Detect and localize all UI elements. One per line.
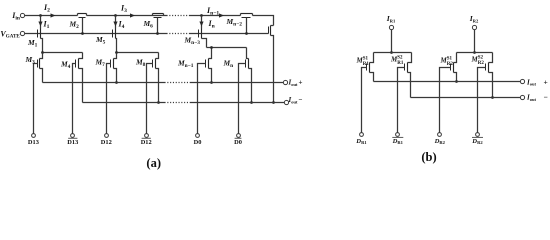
node stage2 top: [114, 14, 117, 17]
svg-text:M4: M4: [60, 60, 71, 70]
wire IR1 lead: [390, 30, 393, 54]
terminal DbarR2: [471, 133, 483, 146]
wire stage2 tee: [115, 51, 158, 54]
svg-text:Mn: Mn: [223, 59, 234, 69]
node stage3 top: [200, 14, 203, 17]
svg-text:Iout−: Iout−: [526, 93, 548, 102]
svg-text:M2: M2: [69, 20, 80, 30]
wire R2 split bar: [457, 52, 493, 54]
terminal DbarR1: [392, 133, 404, 146]
current arrow In: [199, 16, 215, 30]
svg-text:D12: D12: [101, 139, 112, 146]
svg-text:IR2: IR2: [469, 14, 479, 23]
svg-text:DR2: DR2: [471, 138, 483, 145]
terminal Iout- b: [520, 93, 547, 102]
terminal D13: [28, 134, 39, 146]
transistor MR1S2: [390, 53, 412, 133]
svg-text:D13: D13: [67, 139, 78, 146]
current arrow I3: [120, 4, 135, 18]
caption (a): [146, 156, 161, 170]
node stage1 top: [39, 14, 42, 17]
current arrow In-1: [206, 6, 224, 18]
transistor M4: [60, 53, 83, 134]
svg-text:I3: I3: [120, 4, 127, 15]
terminal D0: [194, 134, 202, 146]
wire top rail: [25, 16, 274, 26]
terminal Iout+ a: [283, 79, 302, 87]
terminal Dbar0: [234, 134, 242, 146]
wire R1 split bar: [374, 52, 412, 54]
wire Iout+ rail b: [374, 81, 521, 83]
svg-text:MS1R2: MS1R2: [440, 57, 454, 67]
svg-text:DR1: DR1: [392, 138, 404, 145]
svg-text:In: In: [208, 19, 216, 30]
svg-text:Mn−2: Mn−2: [226, 17, 243, 27]
svg-text:IR1: IR1: [386, 14, 396, 23]
transistor Mn: [223, 48, 252, 134]
svg-text:I2: I2: [43, 3, 50, 14]
wire Iout- rail b: [411, 97, 521, 99]
svg-text:(b): (b): [421, 150, 436, 164]
terminal IR1: [386, 14, 396, 30]
svg-text:M8: M8: [135, 58, 146, 68]
svg-text:Iout+: Iout+: [288, 79, 303, 87]
current arrow I2: [43, 3, 56, 18]
svg-text:M7: M7: [95, 58, 106, 68]
transistor M1: [27, 29, 43, 53]
svg-text:I1: I1: [43, 20, 50, 31]
wire Iout- rail a: [83, 102, 285, 104]
transistor M5: [95, 29, 117, 53]
svg-text:Mn−3: Mn−3: [184, 36, 201, 46]
terminal Dbar13: [67, 134, 78, 146]
terminal Dbar12: [141, 134, 152, 146]
svg-text:Iout−: Iout−: [288, 96, 303, 104]
svg-text:M3: M3: [25, 55, 36, 65]
junction Mterm source: [272, 101, 275, 104]
svg-text:D0: D0: [194, 139, 202, 146]
transistor M8: [135, 53, 159, 134]
svg-text:D12: D12: [141, 139, 152, 146]
junction Mn-1 source: [210, 81, 213, 84]
svg-text:M1: M1: [27, 38, 38, 48]
transistor Mn-1: [177, 46, 213, 133]
svg-text:I4: I4: [118, 20, 125, 31]
svg-text:(a): (a): [146, 156, 161, 170]
junction M8 source: [157, 101, 160, 104]
svg-text:DR2: DR2: [434, 138, 446, 145]
wire Iout+ rail a: [43, 82, 284, 84]
svg-text:Iout+: Iout+: [526, 77, 548, 86]
transistor Mterm: [269, 26, 274, 103]
terminal D12: [101, 134, 112, 146]
transistor M7: [95, 53, 117, 134]
terminal IR2: [469, 14, 479, 30]
junction MR2S1 source: [455, 80, 458, 83]
terminal Iout+ b: [520, 77, 547, 86]
svg-text:D0: D0: [234, 139, 242, 146]
caption (b): [421, 150, 436, 164]
transistor M2: [69, 14, 87, 34]
terminal Iout- a: [284, 96, 302, 105]
junction Mn-2 gate: [245, 32, 248, 35]
wire VGATE rail: [25, 33, 269, 35]
wire stage1 tee: [41, 51, 82, 54]
terminal Iin: [11, 11, 24, 22]
transistor Mn-2: [226, 14, 253, 34]
svg-text:D13: D13: [28, 139, 39, 146]
svg-text:DR1: DR1: [355, 138, 367, 145]
svg-text:M5: M5: [95, 35, 106, 45]
svg-text:Iin: Iin: [11, 11, 20, 22]
transistor MR1S1: [356, 53, 374, 133]
terminal DR1: [355, 133, 367, 146]
svg-text:M6: M6: [143, 19, 154, 29]
transistor Mn-3: [184, 29, 207, 48]
junction M2 gate: [81, 32, 84, 35]
current arrow I4: [113, 16, 124, 31]
svg-text:VGATE: VGATE: [0, 29, 20, 39]
junction Mn source: [250, 101, 253, 104]
terminal VGATE: [0, 29, 24, 39]
svg-text:In−1: In−1: [206, 6, 219, 17]
transistor M6: [143, 14, 164, 34]
transistor MR2S1: [440, 53, 457, 133]
current arrow I1: [38, 16, 49, 31]
wire stage3 tee: [207, 47, 247, 49]
junction MR2S2 source: [491, 96, 494, 99]
svg-text:MS1R1: MS1R1: [356, 57, 370, 67]
junction M6 gate: [156, 32, 159, 35]
terminal DR2: [434, 133, 446, 146]
wire IR2 lead: [473, 30, 476, 54]
transistor M3: [25, 53, 43, 134]
junction M7 source: [115, 81, 118, 84]
transistor MR2S2: [471, 53, 493, 133]
svg-text:Mn−1: Mn−1: [177, 59, 194, 69]
svg-text:MS2R1: MS2R1: [390, 56, 404, 66]
svg-text:MS2R2: MS2R2: [471, 56, 485, 66]
